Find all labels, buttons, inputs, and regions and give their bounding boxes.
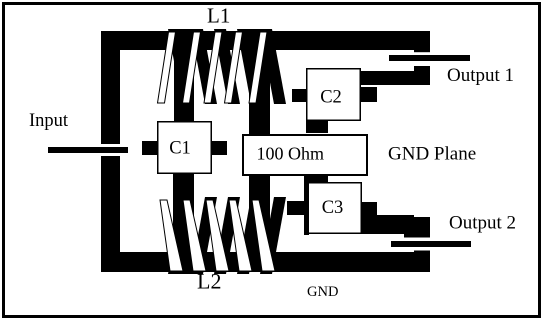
wire: C2 output bar [361,71,414,85]
wire: output 1 riser [414,31,430,85]
inductor L1 [158,29,287,104]
svg-text:C1: C1 [169,139,191,159]
wire: input vertical trace [101,31,120,272]
port: input feed line [46,144,130,156]
svg-text:GND: GND [307,284,338,300]
wire: top branch trace [101,31,430,50]
port: output 1 feed line [386,52,472,66]
wire: output 2 riser [414,234,430,272]
svg-text:L2: L2 [197,269,221,294]
svg-text:GND Plane: GND Plane [388,144,476,165]
svg-text:Output 2: Output 2 [449,213,516,234]
svg-text:C2: C2 [320,87,342,107]
port: output 2 feed line [386,238,472,251]
capacitor C3 [287,176,377,235]
svg-text:L1: L1 [207,4,230,28]
svg-text:100 Ohm: 100 Ohm [257,144,325,164]
wire: bottom branch trace [101,252,430,272]
wire: C3 bar step [404,217,430,238]
wire: C1 bottom stub column [173,174,194,274]
wire: C3 output bar [362,215,414,234]
svg-text:Input: Input [29,111,69,131]
capacitor C2 [292,69,377,133]
inductor L2 [160,197,286,274]
svg-text:Output 1: Output 1 [447,65,514,86]
resistor 100 Ohm [243,135,367,175]
wire: C1 top stub column [174,29,194,121]
capacitor C1 [142,122,227,174]
svg-text:C3: C3 [322,198,344,218]
wire: central vertical trace [249,29,270,252]
